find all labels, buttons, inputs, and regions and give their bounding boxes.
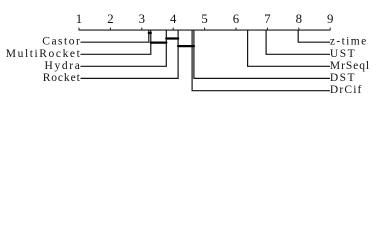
MultiRocket connector line <box>81 30 151 54</box>
axis line <box>79 29 331 31</box>
tick 5 <box>204 28 206 31</box>
svg-text:MrSeql: MrSeql <box>330 60 369 72</box>
tick 2 <box>109 28 111 31</box>
svg-text:1: 1 <box>76 12 82 26</box>
clique bar Rocket-DrCif-DST <box>178 45 194 47</box>
DrCif connector line <box>192 30 330 91</box>
svg-text:5: 5 <box>201 12 207 26</box>
UST connector line <box>266 30 330 54</box>
tick 3 <box>141 28 143 31</box>
svg-text:Rocket: Rocket <box>43 72 81 84</box>
svg-text:UST: UST <box>330 48 355 60</box>
Hydra connector line <box>81 30 167 66</box>
clique bar Hydra-Rocket <box>166 37 178 39</box>
tick 4 <box>172 28 174 31</box>
svg-text:Hydra: Hydra <box>45 60 80 72</box>
svg-text:9: 9 <box>327 12 333 26</box>
svg-text:2: 2 <box>107 12 113 26</box>
Rocket connector line <box>81 30 179 78</box>
svg-text:6: 6 <box>233 12 240 26</box>
Castor connector line <box>81 30 149 42</box>
svg-text:4: 4 <box>170 12 177 26</box>
svg-text:7: 7 <box>264 12 271 26</box>
svg-text:MultiRocket: MultiRocket <box>6 48 81 60</box>
clique bar MultiRocket-Hydra <box>151 41 167 43</box>
tick 1 <box>78 28 80 31</box>
z-time connector line <box>298 30 330 42</box>
DST connector line <box>194 30 330 78</box>
MrSeql connector line <box>248 30 330 66</box>
clique bar Castor-MultiRocket <box>149 32 151 34</box>
svg-text:z-time: z-time <box>330 36 366 48</box>
tick 8 <box>298 28 300 31</box>
tick 6 <box>235 28 237 31</box>
svg-text:3: 3 <box>139 12 145 26</box>
svg-text:DrCif: DrCif <box>330 84 362 96</box>
tick 9 <box>329 28 331 31</box>
svg-text:8: 8 <box>296 12 302 26</box>
svg-text:Castor: Castor <box>42 36 80 48</box>
tick 7 <box>266 28 268 31</box>
svg-text:DST: DST <box>330 72 355 84</box>
